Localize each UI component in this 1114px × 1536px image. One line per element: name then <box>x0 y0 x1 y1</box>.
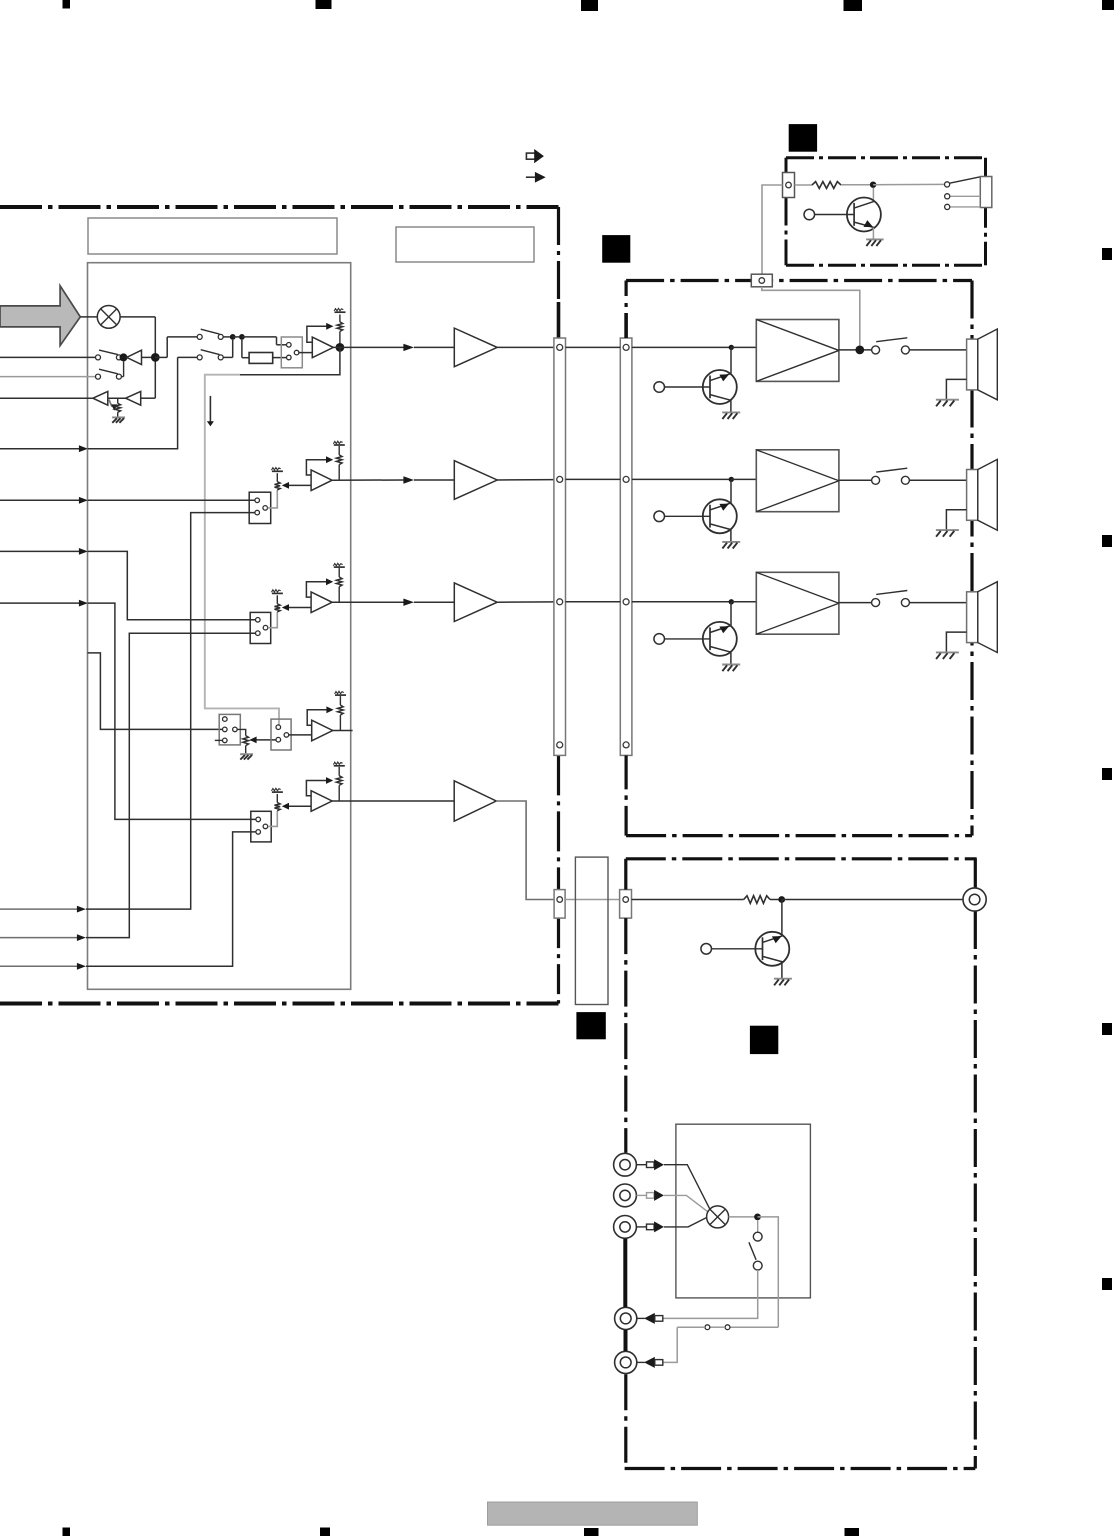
wire bus row1 <box>566 346 621 348</box>
speaker SP1 ground tap <box>946 379 966 399</box>
transistor Q4 <box>703 622 737 656</box>
wire B2 to box top pin <box>242 336 277 338</box>
J2 pin bot <box>623 742 629 748</box>
pot VR3a <box>275 604 281 612</box>
antenna terminal block <box>980 177 992 208</box>
registration mark bottom-2 <box>320 1528 330 1536</box>
wire Q3 emitter <box>730 530 732 542</box>
section label (black) <box>789 124 817 152</box>
registration mark right-2 <box>1102 535 1112 547</box>
wire A1 to row B switch <box>123 361 125 376</box>
transistor Q3 <box>703 499 737 533</box>
pot VR4b <box>339 696 341 705</box>
wire J4 to lamp <box>664 1165 710 1210</box>
wire A4 out <box>496 801 554 900</box>
label box 3 (tall) <box>575 857 608 1004</box>
pot VR5a <box>275 803 281 811</box>
amp box border top <box>626 279 972 282</box>
buffer U2 (left) <box>93 391 108 405</box>
power amp A4 <box>454 781 496 821</box>
wire node to jack <box>782 899 963 901</box>
U8 feedback loop <box>306 781 330 796</box>
connector CN8 <box>554 890 565 919</box>
J1 pin r2 <box>557 476 563 482</box>
J2 pin r1 <box>623 344 629 350</box>
wire fader feed <box>88 653 223 730</box>
power amp A2 <box>454 461 497 500</box>
input wire 3 <box>0 550 80 552</box>
pot VR4 <box>243 736 249 746</box>
J4 arrow <box>636 1164 646 1166</box>
ground SP1 <box>936 399 959 401</box>
J8 arrow <box>644 1357 655 1368</box>
pot VR2b <box>338 446 340 455</box>
node dot U4 out <box>336 343 345 352</box>
connector CN11 <box>751 274 772 287</box>
pot VR6 <box>117 398 119 403</box>
wire Q5 collector <box>781 900 783 935</box>
RCA jack J5 <box>614 1184 637 1207</box>
pot VR6 wiper arrow <box>109 400 112 407</box>
wire arrow to amp3 <box>414 601 454 603</box>
resistor R3 <box>744 896 770 904</box>
wire J6 to lamp <box>664 1218 707 1227</box>
wire U3 input <box>141 397 156 399</box>
wire in4 route <box>88 603 256 819</box>
section label 2 (black) <box>602 235 630 263</box>
wire R1 to box <box>273 357 287 359</box>
ground VR3a <box>272 592 283 594</box>
connector CN10 <box>783 173 795 198</box>
power IC PA2 <box>756 450 839 512</box>
jack link J6-J7 <box>623 1239 627 1307</box>
transistor Q2 <box>703 370 737 404</box>
ground VR6 <box>112 416 125 418</box>
op-amp U4 <box>312 337 333 358</box>
wire bus row2 <box>566 478 621 480</box>
wire CN1 to opamp <box>299 352 312 354</box>
power amp A3 <box>454 583 497 622</box>
jack link J7-J8 <box>624 1330 628 1351</box>
wire R2 to node <box>841 184 870 186</box>
wire CN5 mid to pot <box>268 811 278 827</box>
wire relay collector <box>872 188 874 202</box>
main preamp block border top <box>0 205 559 209</box>
resistor R2 <box>812 182 841 189</box>
wire Q5 emitter <box>781 963 783 978</box>
node dot row1 <box>729 345 734 350</box>
ground VR5b <box>334 765 345 767</box>
U4 feedback loop <box>307 326 330 342</box>
wire CN7 top feed <box>278 724 280 726</box>
ground VR1 <box>335 311 346 313</box>
wire Q2 collector <box>730 347 732 373</box>
registration mark top-1 <box>63 0 71 9</box>
wire node right <box>758 1217 779 1327</box>
wire A3 to bus <box>497 601 554 603</box>
ground VR3b <box>334 566 345 568</box>
wire Q4 emitter <box>730 652 732 664</box>
node dot lamp2 <box>754 1214 761 1221</box>
wire CN8-CN9 <box>565 899 620 901</box>
legend hollow-tail arrow <box>526 153 536 159</box>
switch S1 <box>96 355 101 360</box>
lamp symbol <box>97 306 120 329</box>
wire node to contact <box>873 183 944 185</box>
wire CN10 to R2 <box>795 184 813 186</box>
wire S3 out <box>223 336 230 338</box>
section label 3 (black) <box>576 1012 605 1039</box>
ground Q5 <box>774 978 792 980</box>
label box 1 <box>88 218 337 254</box>
node dot PA1 out <box>855 346 864 355</box>
U7 feedback loop <box>307 710 330 726</box>
switch S2 <box>96 374 101 379</box>
wire PA1 out <box>839 349 872 351</box>
aux selector box <box>676 1124 811 1298</box>
registration mark bottom-4 <box>845 1528 860 1536</box>
node dot row3 <box>729 599 734 604</box>
J2 pin r2 <box>623 476 629 482</box>
input wire 1 <box>0 448 80 450</box>
op-amp U8 <box>311 791 332 812</box>
wire CN9 to R3 <box>632 899 744 901</box>
RCA jack J6 <box>614 1216 637 1239</box>
J1 pin bot <box>557 742 563 748</box>
registration mark right-4 <box>1102 1023 1112 1035</box>
wire CN11 to amp out <box>762 287 860 346</box>
main preamp block border right <box>557 207 560 302</box>
arrowhead row2 <box>403 476 414 483</box>
speaker SP3 ground tap <box>946 632 966 652</box>
section label 4 (black) <box>750 1026 778 1054</box>
wire in3 route <box>88 551 256 619</box>
ground Q1 <box>866 238 884 240</box>
node dot B2 <box>239 334 245 340</box>
wire U7 out <box>333 730 353 732</box>
ground VR5a <box>272 791 283 793</box>
wire bus to amp row1 <box>632 346 731 348</box>
wire U2-U3 <box>108 397 126 399</box>
pot VR3b <box>338 568 340 577</box>
U6 feedback loop <box>306 582 330 597</box>
connector CN5 <box>251 811 271 842</box>
wire Q3 collector <box>730 479 732 503</box>
switch SW5 (inline) <box>730 1326 778 1328</box>
wire U5 out <box>332 479 403 481</box>
wire SW3 to speaker <box>909 602 966 604</box>
wire B2 down to R1 <box>241 340 243 358</box>
buffer U1 (left) <box>127 350 142 364</box>
wire lamp to node <box>80 316 97 318</box>
wire in7 route <box>86 832 256 966</box>
wire Q4 collector <box>730 602 732 626</box>
bus bar J2 <box>620 338 632 755</box>
wire bus to amp row2 <box>632 478 731 480</box>
monitor loop wire <box>240 347 340 374</box>
lamp symbol 2 <box>707 1206 729 1228</box>
switch S4 <box>197 355 202 360</box>
wire A1 to bus <box>497 346 554 348</box>
CN6 bottom stub <box>215 739 223 741</box>
speaker switch SW2 <box>872 476 880 484</box>
aux box border bottom <box>625 1467 976 1470</box>
registration mark right-1 <box>1102 248 1112 260</box>
wire node to upper switch <box>155 356 167 358</box>
speaker SP2 <box>967 470 978 521</box>
resistor R1 <box>249 353 273 364</box>
wire node to PA3 <box>731 601 756 603</box>
J6 arrow <box>636 1226 646 1228</box>
switch SW4 <box>757 1220 759 1232</box>
wire PA2 out <box>839 479 872 481</box>
bus bar J1 <box>554 338 566 755</box>
RCA jack J8 <box>615 1351 637 1373</box>
J1 pin r3 <box>557 599 563 605</box>
wire U6 out <box>332 601 403 603</box>
speaker switch SW1 <box>872 346 880 354</box>
wire lamp2 to node <box>729 1216 755 1218</box>
wire SW2 to speaker <box>909 479 966 481</box>
wire B1-B2 <box>233 336 239 338</box>
legend solid arrow <box>526 176 536 178</box>
wire S4 row <box>178 356 198 358</box>
wire in2 route <box>88 499 255 501</box>
wire buffer to node <box>142 356 152 358</box>
connector CN3 <box>250 612 271 643</box>
RCA jack J7 <box>615 1307 637 1329</box>
wire row A input <box>0 356 96 358</box>
node dot A1 <box>120 353 128 361</box>
wire opamp input arrow 3 <box>285 607 311 609</box>
speaker switch SW3 <box>872 599 880 607</box>
wire SW1 to speaker <box>909 349 966 351</box>
registration mark right-3 <box>1102 768 1112 780</box>
wire CN2 mid to pot <box>268 490 278 508</box>
main preamp block border bottom <box>0 1002 559 1006</box>
aux box border right <box>974 859 977 888</box>
node dot row2 <box>729 477 734 482</box>
registration mark bottom-3 <box>584 1528 599 1536</box>
wire S4 to B1 <box>223 356 233 358</box>
wire in1 route <box>88 357 178 448</box>
pot VR4 wiper arrow <box>252 739 276 741</box>
ground Q2 <box>722 411 740 413</box>
RCA jack J3 (line out) <box>963 888 986 911</box>
ground SP2 <box>936 529 959 531</box>
RCA jack J4 <box>614 1153 637 1176</box>
connector CN1 <box>281 337 302 368</box>
ground VR4 <box>240 753 253 755</box>
power IC PA1 <box>756 320 839 382</box>
footer label block <box>488 1502 698 1525</box>
wire Q2 emitter <box>730 400 732 412</box>
ground SP3 <box>936 651 959 653</box>
speaker SP1 <box>967 339 978 390</box>
wire A2 to bus <box>497 479 554 481</box>
registration mark top-3 <box>581 0 598 11</box>
wire CN6 to pot <box>237 729 246 735</box>
wire opamp input arrow 5 <box>285 805 311 807</box>
relay box border <box>786 156 986 159</box>
node dot A2 <box>151 353 160 362</box>
transistor Q1 <box>847 198 881 232</box>
wire bus to amp row3 <box>632 601 731 603</box>
arrowhead row1 <box>403 344 414 351</box>
switch S3 <box>197 334 202 339</box>
input wire 5 <box>0 908 78 910</box>
wire arrow to amp2 <box>414 479 454 481</box>
pot VR5b <box>338 767 340 776</box>
amp box border bottom <box>626 834 972 837</box>
aux box border top <box>626 857 977 860</box>
ground Q4 <box>722 664 740 666</box>
input wire 2 <box>0 499 80 501</box>
op-amp U6 <box>311 592 332 613</box>
pot VR1 <box>339 315 341 322</box>
wire R3 to node <box>770 899 779 901</box>
wire PA3 out <box>839 602 872 604</box>
aux box border left <box>624 859 627 890</box>
wire opamp input arrow 2 <box>285 484 311 486</box>
inner circuit box <box>88 263 351 990</box>
ground VR4b <box>335 694 346 696</box>
amp box border left <box>624 281 627 297</box>
wire in5 route <box>86 513 255 910</box>
amp box border right <box>970 281 973 836</box>
signal input arrow (grey) <box>0 286 80 346</box>
buffer U3 (left) <box>126 391 141 405</box>
wire node to PA1 <box>731 346 756 348</box>
wire SW5 to J8 <box>663 1327 677 1362</box>
registration mark top-4 <box>844 0 863 11</box>
power amp A1 <box>454 328 497 367</box>
wire row C output <box>0 397 93 399</box>
speaker SP3 <box>967 592 978 643</box>
flow arrow down <box>209 396 211 422</box>
input wire 4 <box>0 602 80 604</box>
connector CN6 <box>219 714 240 745</box>
node dot relay <box>870 182 876 188</box>
connector CN2 <box>249 492 271 523</box>
wire in6 route <box>86 633 256 937</box>
J7 arrow <box>644 1313 655 1324</box>
registration mark top-2 <box>316 0 332 9</box>
label box 2 <box>396 227 534 262</box>
wire arrow to amp1 <box>414 346 454 348</box>
ground VR2a <box>272 470 283 472</box>
wire U8 out <box>332 800 454 802</box>
wire node to PA2 <box>731 478 756 480</box>
connector CN9 <box>620 890 632 919</box>
U5 feedback loop <box>306 460 330 475</box>
wire bus row3 <box>566 601 621 603</box>
wire CN3 mid to pot <box>268 612 277 628</box>
ground VR2b <box>334 444 345 446</box>
ground Q3 <box>722 541 740 543</box>
node dot aux <box>778 896 785 903</box>
wire CN7 to opamp <box>289 734 312 736</box>
power IC PA3 <box>756 572 839 634</box>
pot VR2a <box>275 482 281 490</box>
connector CN7 <box>271 719 291 750</box>
wire row B input (grey) <box>0 376 96 378</box>
J2 pin r3 <box>623 599 629 605</box>
wire relay box to CN11 <box>762 185 783 274</box>
op-amp U7 <box>312 720 333 741</box>
registration mark top-right corner <box>1102 0 1114 10</box>
wire J5 to lamp <box>664 1195 708 1212</box>
speaker SP2 ground tap <box>946 510 966 530</box>
registration mark bottom-1 <box>63 1528 71 1536</box>
node dot B1 <box>230 334 236 340</box>
arrowhead row3 <box>403 599 414 606</box>
transistor Q5 <box>755 932 789 966</box>
J5 arrow <box>636 1194 646 1196</box>
wire U4 to A1 <box>333 346 403 348</box>
op-amp U5 <box>311 470 332 491</box>
wire SW4 to J7 <box>663 1270 758 1318</box>
relay contact <box>945 182 950 187</box>
J1 pin r1 <box>557 344 563 350</box>
input wire 7 <box>0 965 78 967</box>
input wire 6 <box>0 937 78 939</box>
wire Q1 emitter <box>872 228 874 239</box>
registration mark right-5 <box>1102 1278 1112 1290</box>
